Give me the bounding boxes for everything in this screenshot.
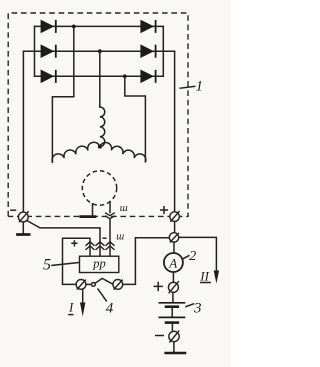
svg-text:2: 2 — [189, 249, 196, 264]
svg-text:I: I — [68, 300, 74, 315]
svg-text:A: A — [168, 255, 177, 270]
svg-text:4: 4 — [106, 301, 114, 317]
svg-text:1: 1 — [196, 79, 204, 95]
svg-text:ш: ш — [120, 203, 128, 214]
svg-text:II: II — [199, 269, 209, 284]
svg-text:3: 3 — [193, 301, 202, 317]
svg-text:ш: ш — [116, 232, 124, 243]
svg-text:5: 5 — [43, 256, 51, 273]
svg-text:pp: pp — [92, 257, 106, 271]
